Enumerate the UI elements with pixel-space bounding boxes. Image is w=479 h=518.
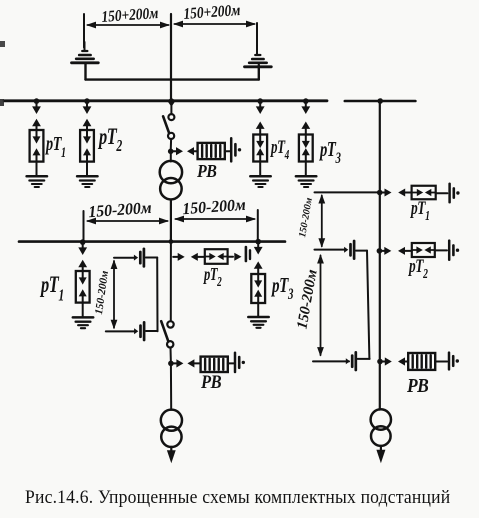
junction node to arrester scheme2 — [168, 361, 174, 367]
svg-text:рТ4: рТ4 — [269, 138, 289, 163]
wire to cable end pT1 scheme3 — [436, 192, 448, 194]
wire transformer1 to bus2 — [170, 200, 172, 242]
dimension line 150+200m left segment — [86, 22, 170, 29]
ground of pT2 scheme1 — [77, 176, 97, 187]
label 150-200m row2 right — [182, 195, 247, 218]
fuse pT1 scheme3 — [412, 186, 436, 200]
label 150-200m dim1 scheme3 — [297, 197, 315, 239]
svg-text:150+200м: 150+200м — [101, 5, 159, 26]
svg-text:рТ2: рТ2 — [202, 265, 222, 290]
transformer T2 scheme2 — [161, 410, 182, 447]
dimension tick left — [83, 14, 85, 48]
cable loop bottom wire scheme2 — [106, 330, 158, 332]
main bus 2 — [19, 240, 285, 243]
plug contacts to arrester scheme1 — [173, 147, 197, 155]
cable end after arrester scheme2 — [235, 353, 245, 372]
dimension tick left row2 — [83, 211, 85, 242]
plug arrow after pT2 scheme2 — [228, 253, 242, 261]
wire incoming drop to bus — [170, 14, 172, 100]
ground of pT4 scheme1 — [250, 176, 270, 187]
junction dot feeder scheme2 — [169, 239, 174, 244]
label PB scheme2 — [200, 371, 222, 392]
wire between line terminals — [86, 78, 259, 80]
svg-text:РВ: РВ — [196, 161, 216, 181]
label 150-200m dim2 scheme3 — [294, 268, 320, 330]
label pT4 scheme1 — [269, 138, 289, 163]
outgoing arrow scheme2 — [167, 447, 176, 463]
svg-text:рТ1: рТ1 — [39, 272, 63, 305]
wire arrester to cable end scheme2 — [228, 362, 234, 364]
cable loop top wire scheme2 — [114, 257, 157, 259]
svg-text:рТ1: рТ1 — [44, 131, 65, 160]
plug contacts to pT2 scheme2 — [173, 253, 205, 261]
branch3 junction scheme3 — [377, 359, 383, 365]
paper speck left edge — [0, 99, 4, 106]
dimension tick right row2 — [257, 210, 259, 241]
fuse feeder pT3 scheme1 — [299, 98, 313, 176]
label pT2 scheme3 — [407, 255, 428, 282]
junction dot bus3 — [377, 98, 383, 104]
cable head branch2 scheme3 — [344, 241, 354, 259]
svg-text:150-200м: 150-200м — [294, 268, 320, 330]
svg-text:рТ1: рТ1 — [409, 197, 429, 224]
arrester PB scheme2 — [201, 357, 228, 372]
cable head on loop top scheme2 — [134, 249, 144, 267]
branch1 junction scheme3 — [377, 190, 383, 196]
arrester PB scheme3 — [408, 353, 435, 370]
cable head on loop bottom scheme2 — [134, 322, 144, 340]
transformer T1 scheme1 — [160, 151, 182, 199]
paper speck top-left — [0, 41, 5, 47]
cable end pT2 scheme3 — [449, 241, 459, 260]
svg-text:рТ3: рТ3 — [270, 273, 293, 302]
fuse pT2 scheme3 — [412, 243, 435, 257]
cable end after pT2 scheme2 — [246, 247, 250, 261]
fuse feeder pT3 scheme2 — [251, 239, 265, 317]
cable head branch3 scheme3 — [346, 352, 356, 370]
svg-text:рТ2: рТ2 — [97, 124, 122, 156]
dimension line 150-200m right segment — [174, 216, 256, 223]
label pT3 scheme2 — [270, 273, 293, 302]
svg-text:РВ: РВ — [406, 375, 428, 397]
line terminal tower right — [245, 46, 272, 80]
line terminal tower left — [72, 42, 99, 80]
svg-text:150+200м: 150+200м — [183, 2, 241, 23]
ground of pT1 scheme2 — [73, 317, 93, 328]
fuse feeder pT2 scheme1 — [80, 98, 94, 176]
label pT2 scheme1 — [97, 124, 122, 156]
wire cable head to drop branch3 scheme3 — [358, 358, 370, 360]
branch3 left wire scheme3 — [313, 360, 349, 362]
fuse feeder pT1 scheme2 — [76, 239, 90, 317]
wire switch to transformer scheme2 — [170, 363, 172, 409]
label 150+200m left — [101, 5, 159, 26]
cable end after arrester scheme3 — [449, 353, 459, 370]
fuse feeder pT4 scheme1 — [253, 98, 267, 176]
branch2 left wire scheme3 — [315, 249, 346, 251]
cable drop between branches scheme3 — [367, 251, 369, 359]
label PB scheme1 — [196, 161, 216, 181]
main bus 3 — [345, 100, 416, 103]
cable end pT1 scheme3 — [450, 184, 460, 202]
ground of pT1 scheme1 — [27, 176, 47, 187]
dimension tick right — [256, 23, 258, 52]
label pT2 scheme2 — [202, 265, 222, 290]
outgoing arrow scheme3 — [376, 447, 385, 464]
svg-text:рТ2: рТ2 — [407, 255, 428, 282]
plug contacts pT2 scheme3 — [382, 247, 412, 255]
ground of pT3 scheme2 — [248, 317, 268, 328]
junction node to arrester branch scheme1 — [168, 149, 174, 155]
label 150+200m right — [183, 2, 241, 23]
svg-text:Рис.14.6. Упрощенные схемы ком: Рис.14.6. Упрощенные схемы комплектных п… — [25, 487, 451, 507]
plug contacts to arrester scheme2 — [173, 359, 200, 367]
plug contacts PB scheme3 — [383, 357, 409, 365]
transformer T3 scheme3 — [371, 409, 391, 446]
svg-text:РВ: РВ — [200, 371, 222, 392]
label 150-200m loop scheme2 — [93, 269, 111, 315]
feeder drop scheme2 — [170, 242, 172, 322]
main bus 1 — [4, 99, 327, 102]
plug contacts pT1 scheme3 — [382, 189, 411, 197]
branch2 junction scheme3 — [377, 248, 383, 254]
wire cable head to drop scheme3 — [356, 250, 367, 252]
disconnect switch scheme2 — [161, 321, 174, 363]
label pT1 scheme3 — [409, 197, 429, 224]
cable end after arrester scheme1 — [231, 138, 241, 161]
svg-text:150-200м: 150-200м — [297, 197, 315, 239]
cable length dimension1 scheme3 — [318, 194, 325, 248]
cable length dimension2 scheme3 — [317, 254, 324, 357]
svg-text:150-200м: 150-200м — [93, 269, 111, 315]
label 150-200m row2 left — [88, 198, 153, 221]
dimension line 150+200m right segment — [173, 21, 256, 28]
cable loop right side scheme2 — [156, 258, 158, 332]
cable length dimension scheme2 — [111, 260, 118, 330]
svg-text:150-200м: 150-200м — [88, 198, 153, 221]
svg-text:рТ3: рТ3 — [318, 137, 341, 166]
arrester PB scheme1 — [198, 143, 225, 159]
branch1 left wire scheme3 — [315, 191, 380, 193]
svg-text:150-200м: 150-200м — [182, 195, 247, 218]
wire arrester to cable end scheme1 — [225, 150, 230, 152]
ground of pT3 scheme1 — [296, 176, 316, 187]
fuse pT2 scheme2 — [205, 249, 228, 264]
wire arrester to cable end scheme3 — [435, 361, 447, 363]
label pT1 scheme2 — [39, 272, 63, 305]
fuse feeder pT1 scheme1 — [30, 98, 44, 176]
figure caption — [25, 487, 451, 507]
wire to cable end pT2 scheme3 — [435, 249, 447, 251]
main feeder line scheme3 — [379, 101, 381, 410]
label PB scheme3 — [406, 375, 428, 397]
label pT3 scheme1 — [318, 137, 341, 166]
disconnect switch scheme1 — [163, 98, 175, 151]
dimension line 150-200m left segment — [86, 218, 169, 225]
label pT1 scheme1 — [44, 131, 65, 160]
